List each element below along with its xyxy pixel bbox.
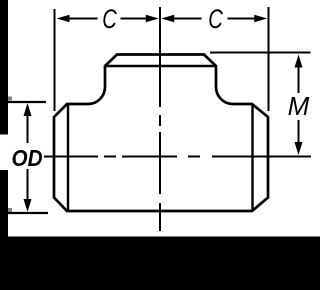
svg-text:M: M [288, 91, 310, 121]
svg-text:C: C [208, 4, 223, 34]
svg-text:C: C [102, 4, 117, 34]
svg-text:OD: OD [12, 145, 43, 171]
